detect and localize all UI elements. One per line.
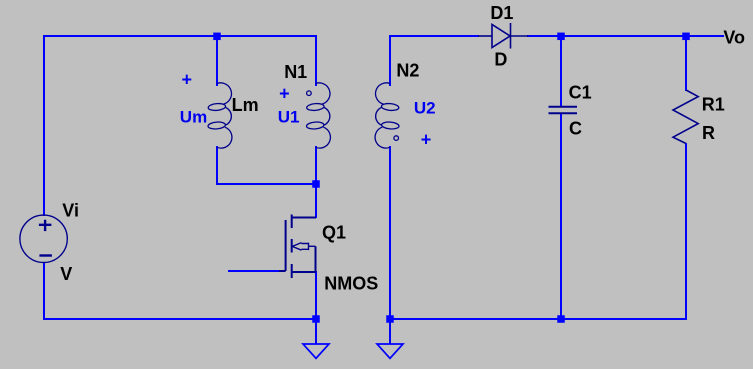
gate lead (279, 270, 286, 272)
svg-text:N2: N2 (396, 61, 419, 81)
svg-text:U1: U1 (278, 107, 300, 126)
svg-text:Um: Um (180, 107, 207, 126)
svg-text:NMOS: NMOS (324, 274, 378, 294)
wire R1 top (685, 36, 687, 90)
diode D1 (478, 23, 529, 49)
wire N2 bottom (389, 147, 391, 319)
Q1 body arrow (292, 243, 315, 251)
channel segments (291, 215, 293, 229)
junction node R1 top (682, 33, 690, 41)
ground symbol GND1 (303, 344, 329, 358)
junction node drain/windings (312, 180, 320, 188)
wire left rail upper (43, 36, 45, 215)
svg-text:+: + (279, 83, 290, 103)
svg-text:+: + (182, 70, 193, 90)
wire bottom-left rail (44, 318, 316, 320)
junction node N2 bottom (386, 315, 394, 323)
source vertical (315, 246, 317, 272)
svg-text:C1: C1 (569, 82, 592, 102)
svg-text:D1: D1 (490, 3, 513, 23)
svg-text:+: + (421, 130, 432, 150)
N2 phase dot (394, 136, 399, 141)
svg-text:Lm: Lm (232, 95, 259, 115)
svg-text:Q1: Q1 (322, 223, 346, 243)
wire top-left rail (44, 35, 316, 37)
wire gnd2 stub (389, 319, 391, 343)
wire C1 bottom (560, 114, 562, 319)
wire Q1 drain (315, 184, 317, 217)
wire top-right rail right of diode (528, 35, 723, 37)
svg-text:C: C (569, 119, 582, 139)
source lead (292, 271, 316, 273)
junction node source/gnd1 (312, 315, 320, 323)
svg-text:D: D (494, 49, 507, 69)
wire Q1 gate stub (229, 270, 280, 272)
inductor Lm (208, 83, 232, 148)
wire Lm top (216, 36, 218, 85)
transformer winding N2 (mirrored) (375, 83, 399, 148)
wire N1 bottom (315, 147, 317, 184)
N1 phase dot (307, 91, 312, 96)
wire C1 top (560, 36, 562, 106)
drain lead (292, 217, 316, 219)
svg-text:Vo: Vo (723, 27, 745, 47)
svg-text:Vi: Vi (62, 201, 79, 221)
wire gnd1 stub (315, 319, 317, 343)
transistor Q1 NMOS (279, 215, 316, 279)
capacitor C1 (549, 107, 578, 113)
wire bottom-right rail (390, 318, 686, 320)
gate bar (285, 220, 287, 271)
resistor R1 (673, 90, 698, 144)
voltage source Vi (20, 215, 67, 262)
ground symbol GND2 (377, 344, 403, 358)
svg-text:U2: U2 (414, 99, 436, 118)
junction node C1 top (557, 33, 565, 41)
junction node Lm top (213, 33, 221, 41)
svg-text:V: V (60, 264, 72, 284)
wire R1 bottom (685, 144, 687, 319)
wire left rail lower (43, 263, 45, 319)
wire N2 top (389, 36, 391, 85)
svg-text:N1: N1 (284, 62, 307, 82)
transformer winding N1 (306, 83, 330, 148)
junction node C1 bottom (557, 315, 565, 323)
svg-text:R1: R1 (702, 94, 725, 114)
svg-text:R: R (702, 123, 715, 143)
wire top-right rail left of diode (390, 35, 478, 37)
wire Lm bottom (217, 147, 316, 184)
wire Q1 source (315, 272, 317, 319)
wire N1 top (315, 36, 317, 85)
